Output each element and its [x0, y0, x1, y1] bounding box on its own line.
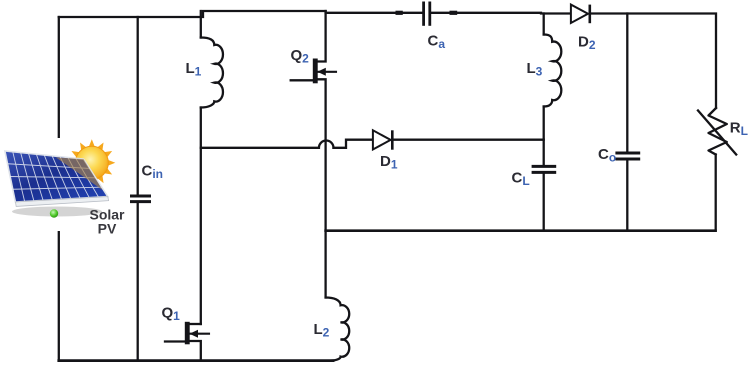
svg-text:PV: PV: [98, 221, 117, 237]
